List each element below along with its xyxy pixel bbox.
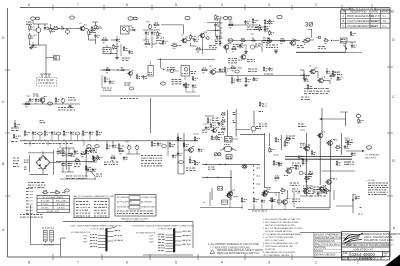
capacitor C34 (278, 162, 283, 166)
svg-text:△ NOTE:: △ NOTE: (366, 179, 375, 182)
node label 21 (162, 145, 167, 148)
node label 22 (179, 161, 184, 164)
svg-text:7: 7 (77, 3, 79, 7)
wire (300, 70, 330, 84)
node label 8 (306, 38, 310, 41)
svg-text:2: 2 (315, 3, 317, 7)
svg-text:APPROVED: APPROVED (381, 11, 395, 14)
svg-text:228 VDC: 228 VDC (57, 207, 65, 209)
phase mark 3-phase (305, 22, 313, 29)
svg-text:VOLTAGE SELECTOR: VOLTAGE SELECTOR (136, 232, 156, 235)
transistor Q20 (300, 144, 310, 151)
resistor R12 (157, 31, 161, 37)
resistor R13 (144, 42, 156, 47)
lamp assembly V1 (181, 66, 190, 81)
box S2 switch (148, 61, 153, 76)
capacitor C19 (192, 84, 197, 88)
table connections (115, 195, 156, 224)
capacitor C11b (264, 25, 270, 29)
box fuse F2 (218, 187, 223, 191)
ground G1 (29, 46, 33, 49)
svg-text:1: 1 (357, 261, 359, 265)
svg-text:Q9: Q9 (309, 66, 312, 68)
wire bus LL1 (202, 164, 260, 170)
transistor Q2 (181, 35, 188, 43)
cluster D extra (121, 44, 133, 60)
wire MM verticals right (306, 133, 341, 196)
resistor R57 (42, 190, 48, 195)
transistor Q14 (227, 190, 238, 197)
transistor Q3 (238, 54, 247, 61)
cluster trem misc (58, 98, 76, 111)
transistor Q1 (79, 23, 88, 31)
wire row2 bus (22, 103, 80, 105)
ground G5 (244, 84, 248, 87)
svg-text:WITH NO SIGNAL APPLIED.: WITH NO SIGNAL APPLIED. (265, 230, 293, 233)
node label 26 (367, 146, 372, 149)
pot VR3 speed (61, 98, 65, 104)
resistor R14 (171, 43, 179, 48)
resistor R52 (63, 130, 69, 141)
resistor R73 (308, 172, 313, 177)
transistor Q9 (309, 66, 318, 74)
transistor Q3a (223, 44, 232, 54)
wire (277, 192, 294, 208)
svg-text:TO PILOT LAMP: TO PILOT LAMP (158, 227, 173, 230)
wire DD arrows (319, 108, 348, 133)
svg-text:240V: 240V (149, 242, 154, 244)
resistor R76 (241, 197, 247, 209)
border frame left (7, 8, 9, 257)
svg-text:NO LOAD: NO LOAD (41, 199, 50, 202)
capacitor C40 psu (57, 148, 63, 155)
corner wedge (385, 255, 400, 266)
node label 23 (242, 165, 247, 168)
capacitor C26 (70, 131, 74, 141)
cluster stage2 misc (90, 28, 102, 32)
note block right (366, 179, 388, 195)
capacitor C11 (264, 28, 269, 32)
capacitor C6 (145, 31, 149, 35)
resistor R28 (302, 39, 310, 44)
resistor R45 (245, 77, 251, 83)
svg-text:C.L.: C.L. (383, 25, 388, 28)
svg-text:OF COMPONENT VALUES.: OF COMPONENT VALUES. (263, 254, 290, 257)
svg-text:R20: R20 (229, 21, 232, 23)
svg-text:MATERIAL: MATERIAL (315, 247, 327, 250)
cluster mid misc (202, 35, 222, 50)
svg-text:DIMENSIONS ARE IN INCHES: DIMENSIONS ARE IN INCHES (315, 237, 348, 240)
cluster M misc (266, 45, 278, 53)
svg-text:DESCRIPTION: DESCRIPTION (350, 11, 367, 14)
svg-text:6: 6 (126, 261, 128, 265)
wire MM vertical B (269, 133, 271, 146)
node label 14 (38, 132, 43, 141)
cluster AA extra (202, 123, 224, 135)
cluster QQ misc (252, 199, 300, 211)
cluster SS (336, 194, 363, 214)
svg-text:C: C (385, 253, 387, 257)
capacitor C32 (177, 152, 183, 156)
wire MM vertical A (265, 133, 272, 188)
node label 13 (356, 114, 361, 117)
resistor R35 (105, 68, 111, 73)
capacitor C9 (214, 23, 219, 27)
zone ticks sides (5, 67, 393, 196)
resistor R65 (211, 135, 216, 140)
transistor Q19 (281, 199, 290, 210)
cluster PSU misc (74, 149, 95, 167)
svg-text:8. SEE PARTS LIST FOR SUBST.: 8. SEE PARTS LIST FOR SUBST. (263, 251, 296, 254)
wire trunk mid (100, 96, 200, 99)
cluster small text mid (40, 121, 46, 123)
capacitor C5 (129, 28, 136, 32)
wire (61, 148, 74, 172)
capacitor C8 (193, 38, 199, 42)
wire to jack (346, 150, 365, 152)
resistor R63 (183, 142, 188, 148)
resistor R66 (216, 135, 222, 140)
resistor R5 (52, 26, 60, 31)
wire (70, 28, 79, 30)
capacitor C22 (326, 68, 330, 74)
transistor Q10 (317, 77, 325, 83)
node label 9 (48, 102, 53, 105)
capacitor C20 (219, 68, 225, 72)
zone letters left (2, 36, 5, 232)
cluster QQ left (203, 192, 232, 208)
resistor R55h (71, 154, 81, 163)
wire trunk right (216, 72, 311, 76)
resistor R27 (279, 39, 286, 44)
resistor R42 (224, 67, 230, 73)
ground G4 (68, 105, 72, 108)
wire bus L2 (228, 41, 262, 53)
cluster L right (247, 27, 258, 34)
cluster MM mid parts (304, 175, 312, 182)
cluster KK extra (193, 134, 204, 166)
wire corner (161, 58, 165, 70)
cluster top335 (318, 31, 356, 49)
wire row2 top bus (100, 69, 130, 70)
right transformer panel (132, 222, 194, 255)
capacitor C21 (237, 76, 242, 83)
node label psu (60, 150, 64, 153)
transistor Q7 (127, 70, 133, 78)
pot VR4 (125, 142, 131, 151)
svg-text:FOR EXPORT MODELS POWER TRANSF: FOR EXPORT MODELS POWER TRANSFORMER CONN… (132, 225, 194, 228)
transistor Q11 (211, 127, 219, 132)
svg-text:115V: 115V (149, 236, 154, 238)
parts list block (300, 233, 352, 258)
resistor R68 (269, 147, 275, 153)
wire B+ feed (296, 43, 362, 52)
resistor R6 (88, 29, 94, 40)
cluster CC labels (253, 124, 268, 133)
svg-text:115V: 115V (83, 235, 88, 237)
wire (179, 41, 196, 47)
svg-text:PRINTED CIRCUIT BOARD ASSEMBLY: PRINTED CIRCUIT BOARD ASSEMBLY (346, 243, 393, 247)
svg-text:DATE: DATE (372, 11, 379, 14)
resistor R53 (82, 130, 88, 141)
wire KK verticals (178, 133, 184, 174)
resistor R56 (85, 165, 91, 171)
resistor R77 (253, 197, 259, 209)
border frame right (389, 8, 391, 258)
cluster L2 parts (233, 44, 245, 48)
capacitor C1 (42, 24, 49, 30)
svg-text:7: 7 (77, 261, 79, 265)
cluster MM extra (273, 140, 310, 181)
resistor R69 (275, 137, 281, 142)
svg-text:AC PLUG/FUSE: AC PLUG/FUSE (117, 201, 132, 204)
cluster M tail (263, 67, 273, 75)
resistor hang1 (221, 112, 226, 131)
svg-text:VOLTAGE SELECTOR: VOLTAGE SELECTOR (71, 231, 91, 234)
wire (126, 151, 140, 154)
cluster RR (296, 190, 330, 208)
svg-text:230V: 230V (83, 241, 88, 243)
node label 20 (65, 189, 70, 192)
svg-text:235 VDC: 235 VDC (41, 207, 49, 209)
zone ticks top (53, 5, 342, 10)
cluster S mid (166, 68, 179, 73)
svg-text:SHEET 1 OF 1: SHEET 1 OF 1 (362, 257, 379, 260)
switch S1 (121, 26, 133, 34)
wire out mid (322, 170, 356, 172)
svg-text:2: 2 (315, 261, 317, 265)
svg-text:IN CHASSIS: IN CHASSIS (117, 196, 129, 199)
cluster W misc (334, 72, 343, 80)
cluster PP (300, 187, 326, 196)
wire trunk middle (20, 140, 198, 142)
panel divider line (61, 222, 194, 257)
cluster V misc (248, 69, 259, 81)
dashed block tremolo (37, 74, 57, 86)
cluster L3 parts (228, 59, 255, 63)
cluster HH marks (13, 158, 19, 166)
resistor R50 (24, 130, 30, 141)
resistor R72 (311, 150, 315, 155)
svg-text:12-20-78: 12-20-78 (371, 20, 381, 23)
svg-text:Q2: Q2 (181, 35, 184, 37)
wire (202, 38, 204, 54)
svg-text:455 VDC: 455 VDC (57, 204, 65, 206)
transistor Q13 (184, 147, 194, 153)
junction box B2 (225, 137, 239, 143)
transistor Q19L (262, 189, 280, 196)
wire (310, 39, 339, 42)
resistor R25 (269, 30, 274, 36)
transistor Q4 (289, 38, 296, 45)
node label 3 (128, 17, 137, 20)
cluster right of box (191, 72, 199, 81)
cluster mid168 (168, 141, 177, 159)
connector J1 input jacks (26, 17, 42, 45)
wire bottom bus (248, 209, 330, 211)
resistor R75 (335, 145, 341, 150)
svg-text:5: 5 (175, 261, 177, 265)
resistor R col right (259, 102, 267, 112)
svg-text:INTO 4 OHM LOAD.: INTO 4 OHM LOAD. (265, 239, 285, 242)
cluster psu marks (60, 144, 102, 176)
tube pinout diagram (42, 228, 55, 246)
svg-text:8: 8 (28, 3, 30, 7)
resistor R22 (231, 47, 237, 52)
wire (89, 22, 99, 44)
resistor R33 (55, 97, 59, 104)
svg-text:TO PILOT LAMP: TO PILOT LAMP (90, 227, 105, 230)
wire bridge loop (28, 150, 61, 175)
node small (205, 37, 209, 40)
node label 4 (185, 16, 190, 19)
resistor R21 (252, 18, 258, 25)
svg-text:JACK R7/S: JACK R7/S (365, 157, 377, 160)
svg-text:FINISH: FINISH (315, 251, 323, 253)
svg-text:<DELETED> AT: <DELETED> AT (353, 248, 373, 252)
cluster PP2 (314, 188, 329, 196)
cluster JJ text (141, 156, 162, 166)
resistor R24b (259, 24, 265, 31)
svg-text:CHASSIS GND: CHASSIS GND (141, 205, 155, 208)
resistor R48 (329, 74, 335, 79)
cluster L right col (263, 27, 271, 43)
wire (50, 191, 65, 195)
cluster L1 parts (255, 28, 262, 30)
svg-text:1. ALL RESISTORS ARE 1/2 WATT: 1. ALL RESISTORS ARE 1/2 WATT 5% (263, 218, 301, 221)
wire bus L1 (228, 24, 258, 26)
wire (161, 25, 184, 34)
svg-text:7. SWITCHES SHOWN IN OFF: 7. SWITCHES SHOWN IN OFF (263, 246, 294, 248)
table DC voltages (74, 195, 114, 218)
cluster O marks (297, 46, 304, 48)
cluster MM top text (285, 136, 295, 142)
resistor R23 (264, 19, 270, 25)
box BR1 (341, 38, 348, 43)
resistor R32 (24, 102, 31, 107)
transistor Q22 (318, 186, 326, 192)
resistor R61 (151, 141, 156, 147)
cluster MM3 (344, 138, 356, 164)
svg-text:3. ALL VOLTAGES MEASURED TO GN: 3. ALL VOLTAGES MEASURED TO GND (263, 227, 303, 230)
resistor R51 (44, 130, 49, 141)
resistor R24 (269, 19, 274, 25)
capacitor C10c (251, 38, 256, 42)
cluster bridge marks (24, 160, 29, 169)
resistor R54 (96, 130, 102, 141)
svg-text:VR2: VR2 (146, 22, 150, 24)
cluster S low (172, 80, 189, 88)
wire trunk speaker bus (285, 157, 352, 160)
cluster MM bottom row (280, 183, 300, 193)
node label 12 (235, 70, 239, 73)
node label 6b (228, 39, 233, 42)
capacitor C7 (151, 31, 156, 35)
table voltage chart (37, 196, 70, 213)
cluster bus marks (233, 113, 236, 123)
svg-text:5-4-79: 5-4-79 (371, 25, 379, 28)
capacitor C15 (35, 98, 40, 104)
left transformer panel (70, 225, 122, 252)
junction dots (253, 165, 260, 193)
svg-text:AC RECEPT: AC RECEPT (141, 201, 153, 204)
svg-text:REPLACE WITH IDENTICAL PART NO: REPLACE WITH IDENTICAL PART NO. (217, 252, 260, 255)
transistor Q18 output (326, 140, 338, 146)
cluster W extra (300, 70, 338, 82)
svg-text:MODEL 30-12: MODEL 30-12 (47, 211, 61, 213)
arrow mark (344, 45, 348, 50)
capacitor C13 (348, 42, 357, 48)
cluster MM2 misc (303, 186, 334, 200)
zone numbers top (28, 3, 373, 8)
wire cc link (236, 130, 265, 135)
capacitor C31 (157, 142, 163, 146)
capacitor C30 (112, 141, 117, 149)
title block (342, 232, 400, 261)
svg-text:FULL LOAD: FULL LOAD (56, 199, 67, 202)
warning triangle note (210, 249, 264, 255)
svg-text:UNLESS OTHERWISE SPECIFIED: UNLESS OTHERWISE SPECIFIED (315, 235, 352, 237)
resistor R16 (215, 15, 221, 20)
svg-text:GROUND SW: GROUND SW (117, 206, 130, 208)
resistor R78 (271, 197, 275, 209)
wire MM vertical C (281, 135, 283, 150)
transistor Q17 output (317, 132, 326, 138)
wire bottom left bus (200, 207, 243, 209)
resistor R21c (240, 38, 246, 43)
svg-text:6: 6 (126, 3, 128, 7)
resistor R80 psu (92, 155, 98, 160)
svg-text:7025/12AX7: 7025/12AX7 (43, 243, 55, 246)
svg-text:Q8: Q8 (209, 66, 212, 68)
svg-text:0254-49000: 0254-49000 (352, 252, 376, 257)
resistor R74 (336, 161, 340, 166)
resistor R44 (231, 76, 237, 85)
svg-text:LTR: LTR (341, 11, 346, 14)
capacitor C25 (51, 131, 56, 141)
cluster input misc2 (46, 56, 60, 61)
resistor R36 (136, 74, 142, 79)
svg-text:4: 4 (221, 3, 223, 7)
transistor Q2b (197, 32, 208, 38)
svg-text:8: 8 (28, 261, 30, 265)
transistor Q15 (284, 167, 294, 175)
legend symbol key (20, 189, 43, 218)
capacitor C35 (344, 145, 349, 149)
capacitor C41 psu (92, 168, 97, 172)
capacitor C1b (32, 42, 37, 48)
cluster EE (11, 120, 20, 130)
capacitor C4 (116, 36, 120, 42)
svg-text:3: 3 (268, 261, 270, 265)
svg-text:2. ALL CAPACITOR VALUES IN MFD: 2. ALL CAPACITOR VALUES IN MFD (263, 221, 299, 224)
zone numbers bottom (28, 261, 359, 265)
cluster tone misc (156, 38, 168, 44)
svg-text:TOLERANCES ON: TOLERANCES ON (315, 240, 335, 243)
resistor R41 (201, 68, 208, 73)
resistor R9 (113, 44, 119, 50)
svg-text:4. VOLTAGES SHOWN ARE AVERAGE.: 4. VOLTAGES SHOWN ARE AVERAGE. (263, 233, 302, 236)
resistor R60 (118, 149, 124, 154)
cluster JJ extra (104, 143, 128, 164)
capacitor C36 (261, 199, 266, 209)
svg-text:C: C (343, 25, 345, 28)
capacitor C29 filter (67, 148, 72, 172)
ground G3 (244, 44, 248, 53)
pot VR2 treble (146, 22, 152, 30)
node Q5 (317, 36, 333, 43)
resistor R26 (266, 39, 273, 44)
